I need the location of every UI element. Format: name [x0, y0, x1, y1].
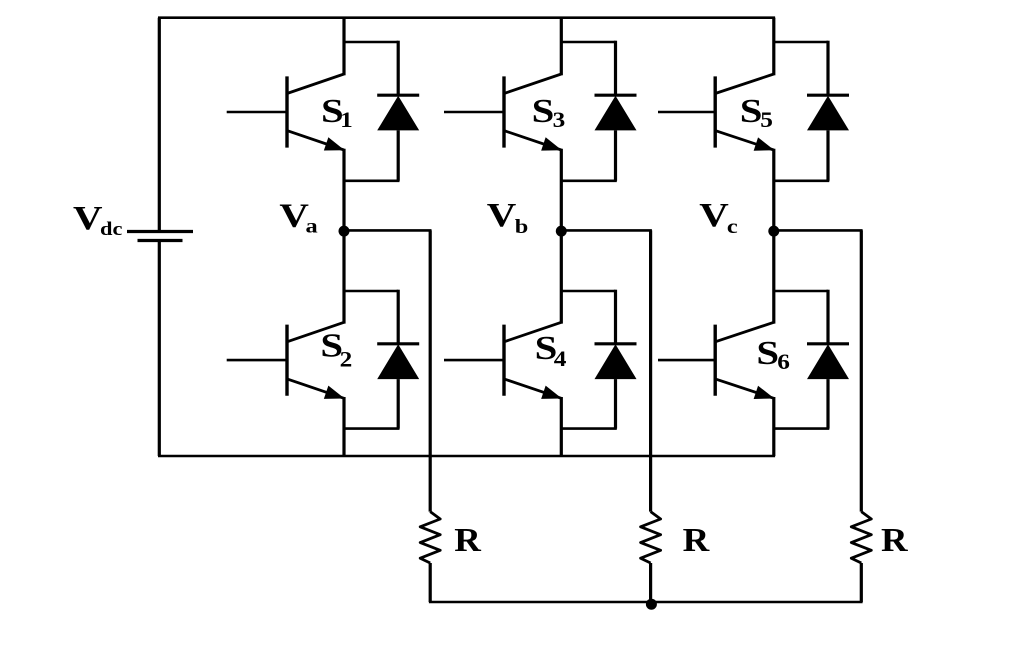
- svg-text:R: R: [454, 521, 481, 558]
- wire S3 emitter to node Vb: [560, 149, 563, 231]
- resistor R (phase c): [851, 512, 871, 563]
- wire S1 emitter to node Va: [342, 149, 345, 231]
- svg-text:S: S: [756, 335, 779, 372]
- svg-text:S: S: [532, 93, 555, 130]
- wire output b vertical to resistor: [649, 230, 652, 511]
- wire top rail to S5 collector: [772, 18, 775, 76]
- wire top rail (+) bus: [158, 16, 775, 19]
- node Vb: [556, 226, 567, 237]
- svg-text:b: b: [515, 215, 529, 237]
- diode D3 (anti-parallel with S3): [561, 41, 636, 181]
- wire neutral bus: [429, 601, 863, 604]
- wire S2 emitter to bottom rail: [342, 397, 345, 456]
- wire node Va to S2 collector: [342, 230, 345, 323]
- wire node Va to output a (horizontal): [344, 229, 432, 232]
- svg-text:R: R: [683, 521, 710, 558]
- transistor S4 (lower IGBT phase b): [444, 322, 562, 399]
- battery Vdc: [127, 232, 193, 241]
- wire resistor c to neutral bus: [860, 563, 863, 602]
- diode D1 (anti-parallel with S1): [344, 41, 419, 181]
- transistor S5 (upper IGBT phase c): [658, 74, 774, 151]
- wire top rail to S3 collector: [560, 18, 563, 76]
- svg-text:5: 5: [760, 109, 773, 133]
- wire left rail lower (Vdc - to bottom rail): [158, 241, 161, 457]
- diode D5 (anti-parallel with S5): [774, 41, 849, 181]
- svg-text:1: 1: [340, 109, 353, 133]
- svg-text:c: c: [727, 215, 738, 237]
- transistor S6 (lower IGBT phase c): [658, 322, 774, 399]
- wire node Vb to S4 collector: [560, 230, 563, 323]
- svg-text:3: 3: [553, 108, 566, 132]
- wire S6 emitter to bottom rail: [772, 397, 775, 456]
- svg-text:2: 2: [340, 348, 353, 372]
- wire node Vb to output b (horizontal): [561, 229, 652, 232]
- transistor S2 (lower IGBT phase a): [227, 322, 345, 399]
- diode D4 (anti-parallel with S4): [561, 290, 636, 429]
- transistor S1 (upper IGBT phase a): [227, 74, 345, 151]
- wire node Vc to output c (horizontal): [774, 229, 863, 232]
- svg-text:4: 4: [554, 347, 567, 371]
- wire output c vertical to resistor: [860, 230, 863, 511]
- node Vc: [768, 226, 779, 237]
- svg-text:V: V: [699, 197, 729, 234]
- wire node Vc to S6 collector: [772, 230, 775, 323]
- svg-text:S: S: [740, 93, 763, 130]
- svg-text:dc: dc: [100, 218, 122, 240]
- wire bottom rail (-) bus: [158, 455, 775, 458]
- wire output a vertical to resistor: [429, 230, 432, 511]
- svg-text:R: R: [881, 521, 908, 558]
- wire resistor a to neutral bus: [429, 563, 432, 602]
- svg-text:V: V: [487, 197, 517, 234]
- svg-text:a: a: [306, 215, 318, 237]
- svg-text:V: V: [279, 198, 309, 235]
- diode D2 (anti-parallel with S2): [344, 290, 419, 429]
- wire left rail upper (Vdc + to top rail): [158, 18, 161, 231]
- wire resistor b to neutral bus: [649, 563, 652, 602]
- transistor S3 (upper IGBT phase b): [444, 74, 562, 151]
- diode D6 (anti-parallel with S6): [774, 290, 849, 429]
- node neutral (star point): [646, 599, 657, 610]
- wire S5 emitter to node Vc: [772, 149, 775, 231]
- svg-text:V: V: [73, 201, 103, 238]
- svg-text:6: 6: [777, 350, 790, 374]
- node Va: [339, 226, 350, 237]
- wire top rail to S1 collector: [342, 18, 345, 76]
- resistor R (phase b): [641, 512, 661, 563]
- resistor R (phase a): [420, 512, 440, 563]
- wire S4 emitter to bottom rail: [560, 397, 563, 456]
